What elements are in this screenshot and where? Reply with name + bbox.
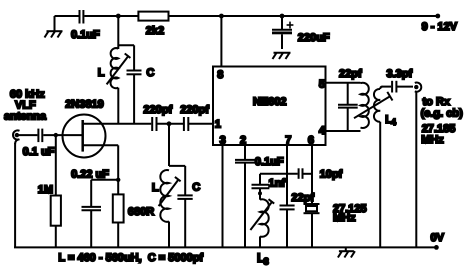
svg-text:8: 8: [217, 69, 223, 81]
svg-text:(e.g. cb): (e.g. cb): [421, 107, 464, 119]
capacitor 0.1uF (pin 2 bypass): [235, 145, 284, 247]
node junction between 220pf caps: [157, 121, 184, 166]
svg-text:1M: 1M: [38, 184, 53, 196]
label 60 kHz VLF antenna: [4, 89, 47, 123]
capacitor 10pf (pins 6-7): [299, 168, 343, 180]
svg-text:to Rx: to Rx: [423, 96, 451, 108]
wire bottom 0V rail: [14, 232, 445, 250]
wire source bias column: [91, 145, 120, 194]
svg-text:antenna: antenna: [4, 111, 47, 123]
wire pin 3 to ground rail: [222, 145, 224, 247]
resistor 680R: [113, 194, 154, 247]
capacitor C (tank 1): [118, 45, 154, 124]
svg-text:220pf: 220pf: [180, 104, 209, 116]
ground (top-left): [45, 16, 63, 38]
inductor L3 (variable): [250, 199, 274, 267]
svg-text:NE602: NE602: [253, 96, 287, 108]
svg-text:L: L: [98, 67, 105, 79]
wire pin 5: [326, 82, 361, 84]
svg-text:2N3819: 2N3819: [65, 98, 104, 110]
svg-text:220pf: 220pf: [143, 104, 172, 116]
svg-text:2: 2: [240, 135, 246, 147]
svg-text:4: 4: [391, 117, 396, 127]
capacitor 22pf (oscillator tank): [338, 68, 362, 131]
capacitor C (tank 2): [177, 166, 200, 248]
svg-text:22pf: 22pf: [339, 68, 362, 80]
capacitor 1nf: [252, 174, 286, 200]
transistor Q1 2N3819 JFET: [63, 98, 152, 157]
wire pin 4: [326, 130, 361, 132]
capacitor 220pf (second coupling): [180, 104, 213, 131]
svg-text:7: 7: [285, 135, 291, 147]
svg-text:1nf: 1nf: [269, 178, 286, 190]
node junction top of tank 1: [116, 14, 121, 19]
transformer L4 secondary: [374, 87, 391, 248]
capacitor 22pf (pin 7): [280, 145, 315, 247]
svg-text:680R: 680R: [128, 206, 154, 218]
resistor 1M: [38, 135, 61, 247]
output terminal to Rx: [414, 83, 421, 248]
wire top supply rail: [55, 14, 441, 19]
svg-text:6: 6: [308, 135, 314, 147]
capacitor 220uF electrolytic: [272, 16, 330, 49]
svg-text:5: 5: [319, 79, 325, 91]
svg-text:C: C: [146, 67, 154, 79]
svg-text:220uF: 220uF: [298, 32, 330, 44]
capacitor 0.22 uF (source bypass): [71, 169, 109, 248]
node junction 220uF: [280, 14, 285, 19]
antenna input terminal: [13, 130, 19, 247]
wire pin8 to supply: [220, 16, 222, 67]
svg-text:22pf: 22pf: [291, 192, 314, 204]
svg-text:10pf: 10pf: [320, 168, 343, 180]
svg-text:0.1uF: 0.1uF: [255, 156, 284, 168]
node junction pin8 supply: [219, 14, 224, 19]
inductor L (tank 1, variable): [98, 48, 131, 124]
capacitor 3.3pf (output coupling): [387, 68, 414, 93]
ground (below 220uF): [273, 53, 291, 59]
svg-text:2k2: 2k2: [146, 25, 164, 37]
node junction 1M: [54, 133, 58, 137]
svg-text:4: 4: [319, 125, 326, 137]
svg-text:MHz: MHz: [333, 212, 356, 224]
svg-text:3: 3: [264, 257, 269, 268]
inductor L (tank 2, variable): [152, 166, 185, 248]
svg-text:L: L: [152, 182, 159, 194]
svg-text:0V: 0V: [431, 232, 445, 244]
svg-text:3.3pf: 3.3pf: [387, 68, 413, 80]
wire tank1 top feed: [117, 16, 119, 49]
svg-text:0.1 uF: 0.1 uF: [23, 146, 55, 158]
capacitor 0.1 uF (antenna coupling): [18, 129, 55, 158]
svg-text:C: C: [192, 182, 200, 194]
ground (bottom rail): [338, 247, 355, 257]
capacitor 220pf (first coupling): [143, 104, 172, 131]
svg-text:3: 3: [220, 135, 226, 147]
svg-text:1: 1: [215, 118, 221, 130]
capacitor 0.1uF (top-left decoupling): [71, 10, 100, 41]
svg-text:L = 460 - 560uH, C = 5000pf: L = 460 - 560uH, C = 5000pf: [58, 252, 203, 264]
svg-text:MHz: MHz: [421, 134, 444, 146]
IC U1 NE602 mixer: [213, 67, 326, 147]
svg-text:0.1uF: 0.1uF: [71, 29, 100, 41]
wire oscillator feedback node: [260, 173, 298, 175]
label to Rx: [421, 96, 464, 146]
svg-text:0.22 uF: 0.22 uF: [71, 169, 109, 181]
resistor 2k2: [138, 12, 168, 37]
wire gate: [43, 134, 82, 136]
transformer L4 primary (variable): [354, 83, 396, 128]
crystal X1 27.125 MHz: [304, 145, 367, 247]
svg-text:9 - 12V: 9 - 12V: [422, 21, 458, 33]
